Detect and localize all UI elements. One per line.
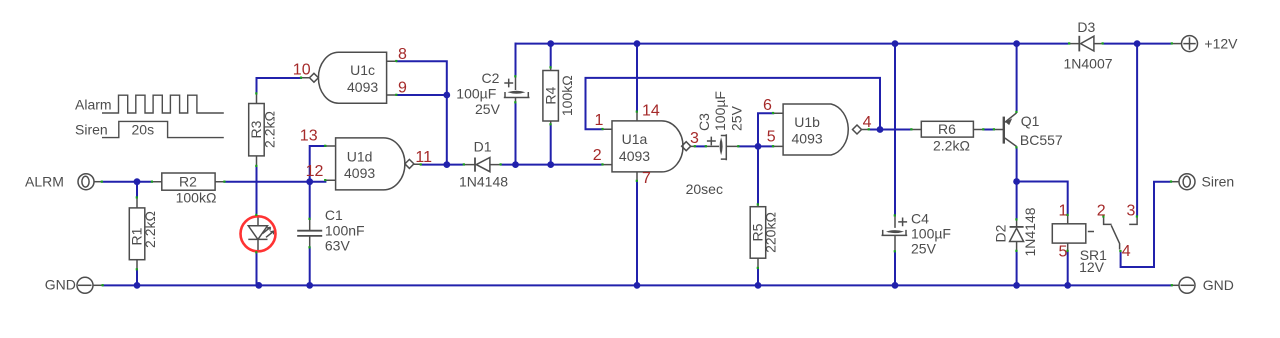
svg-text:100nF: 100nF (325, 223, 365, 239)
svg-text:7: 7 (642, 170, 651, 187)
svg-text:BC557: BC557 (1020, 132, 1063, 148)
svg-text:U1c: U1c (350, 62, 375, 78)
svg-text:11: 11 (415, 149, 432, 166)
svg-text:D1: D1 (474, 138, 492, 154)
svg-text:Siren: Siren (1202, 174, 1235, 190)
svg-text:4093: 4093 (619, 148, 650, 164)
svg-text:2: 2 (1097, 203, 1106, 220)
svg-text:100µF: 100µF (911, 225, 951, 241)
svg-text:25V: 25V (475, 101, 501, 117)
svg-text:100µF: 100µF (456, 86, 496, 102)
svg-text:1: 1 (1059, 203, 1068, 220)
svg-text:3: 3 (1127, 203, 1136, 220)
svg-text:1: 1 (595, 112, 604, 129)
svg-text:C1: C1 (325, 207, 343, 223)
svg-text:+12V: +12V (1204, 36, 1238, 52)
svg-text:4093: 4093 (792, 131, 823, 147)
svg-text:13: 13 (300, 127, 318, 144)
svg-text:2.2kΩ: 2.2kΩ (262, 111, 278, 148)
svg-text:4: 4 (1122, 243, 1131, 260)
svg-text:9: 9 (398, 80, 407, 97)
svg-text:20s: 20s (132, 122, 155, 138)
svg-text:5: 5 (767, 129, 776, 146)
svg-text:C4: C4 (911, 210, 929, 226)
svg-text:1N4007: 1N4007 (1064, 55, 1113, 71)
svg-text:U1d: U1d (347, 148, 373, 164)
svg-text:63V: 63V (325, 237, 351, 253)
svg-text:U1b: U1b (794, 114, 820, 130)
svg-text:GND: GND (45, 277, 76, 293)
svg-text:C2: C2 (482, 70, 500, 86)
svg-text:14: 14 (642, 103, 660, 120)
svg-text:Siren: Siren (75, 122, 108, 138)
svg-text:100µF: 100µF (712, 91, 728, 131)
svg-text:12V: 12V (1079, 259, 1105, 275)
svg-text:25V: 25V (911, 240, 937, 256)
svg-text:6: 6 (763, 97, 772, 114)
svg-text:10: 10 (293, 62, 311, 79)
svg-text:12: 12 (306, 163, 324, 180)
svg-text:3: 3 (690, 130, 699, 147)
svg-text:D3: D3 (1077, 19, 1095, 35)
svg-text:R4: R4 (542, 87, 558, 105)
svg-text:GND: GND (1203, 277, 1234, 293)
svg-text:25V: 25V (729, 105, 745, 131)
svg-text:2.2kΩ: 2.2kΩ (142, 211, 158, 248)
svg-text:R2: R2 (179, 174, 197, 190)
svg-text:8: 8 (398, 46, 407, 63)
svg-text:20sec: 20sec (686, 181, 723, 197)
svg-text:U1a: U1a (622, 131, 648, 147)
svg-text:2: 2 (593, 147, 602, 164)
svg-text:C3: C3 (696, 113, 712, 131)
svg-text:2.2kΩ: 2.2kΩ (933, 138, 970, 154)
svg-text:220kΩ: 220kΩ (763, 212, 779, 253)
svg-text:1N4148: 1N4148 (1022, 207, 1038, 256)
svg-text:5: 5 (1059, 244, 1068, 261)
svg-text:4093: 4093 (347, 79, 378, 95)
svg-text:Q1: Q1 (1021, 113, 1040, 129)
svg-text:R6: R6 (938, 121, 956, 137)
svg-text:4: 4 (863, 114, 872, 131)
svg-text:D2: D2 (993, 224, 1009, 242)
svg-text:1N4148: 1N4148 (459, 174, 508, 190)
svg-text:Alarm: Alarm (75, 96, 112, 112)
svg-text:100kΩ: 100kΩ (559, 75, 575, 116)
svg-text:100kΩ: 100kΩ (176, 190, 217, 206)
svg-text:ALRM: ALRM (25, 173, 64, 189)
svg-text:4093: 4093 (344, 165, 375, 181)
